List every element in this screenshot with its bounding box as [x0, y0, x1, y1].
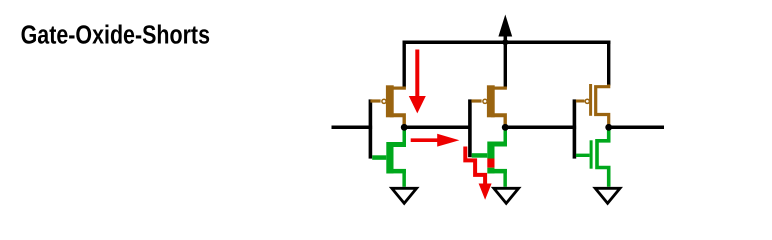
node out2 — [502, 124, 509, 131]
nmos Q2 — [372, 128, 406, 187]
fault current arrow node1 to gate of Q4 — [411, 134, 460, 147]
wire input — [332, 126, 373, 130]
VDD supply arrow — [498, 15, 512, 44]
ground 1 — [392, 188, 417, 203]
wire out2 to gate3 — [505, 126, 576, 130]
fault current arrow through PMOS Q1 — [409, 50, 426, 114]
wire VDD rail — [403, 40, 611, 44]
wire out1 to gate2 — [404, 126, 471, 130]
pmos Q5 — [576, 84, 609, 127]
wire VDD feed 2 — [504, 42, 507, 87]
node out3 — [605, 124, 612, 131]
wire gate bus 1 — [369, 99, 373, 158]
wire gate bus 2 — [468, 99, 472, 157]
wire VDD feed 1 — [403, 41, 406, 88]
junction dot VDD — [502, 39, 508, 45]
node out1 — [401, 124, 408, 131]
svg-text:Gate-Oxide-Shorts: Gate-Oxide-Shorts — [21, 20, 210, 50]
pmos Q3 — [471, 85, 507, 127]
nmos Q6 — [576, 127, 609, 187]
ground 3 — [595, 188, 620, 203]
wire gate bus 3 — [573, 99, 577, 158]
nmos Q4 with gate-oxide short — [472, 128, 507, 187]
wire VDD feed 3 — [607, 41, 610, 86]
pmos Q1 — [370, 85, 406, 127]
ground 2 — [494, 188, 519, 203]
fault current zigzag arrow through gate oxide short — [465, 147, 491, 200]
wire output — [609, 126, 664, 130]
